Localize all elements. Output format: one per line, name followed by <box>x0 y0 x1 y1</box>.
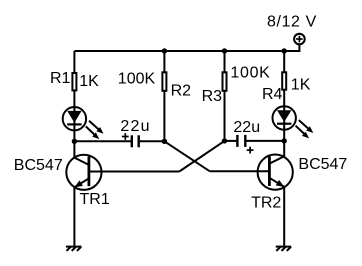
svg-text:R3: R3 <box>202 88 223 105</box>
junction TR2 collector node <box>282 138 287 143</box>
wire supply riser <box>284 45 299 51</box>
wire TR2 base <box>210 170 270 172</box>
wire LED D1 to collector node <box>73 130 75 141</box>
resistor R4 lead <box>283 51 285 107</box>
resistor R2 lead <box>163 51 165 141</box>
capacitor C1 22u <box>122 133 139 147</box>
ground right <box>276 247 291 251</box>
svg-text:BC547: BC547 <box>14 157 63 174</box>
svg-text:1K: 1K <box>79 73 99 90</box>
resistor R2 <box>162 72 166 91</box>
junction rail/R4 <box>282 48 287 53</box>
LED D1 <box>63 107 86 130</box>
svg-text:100K: 100K <box>230 64 270 81</box>
junction TR1 collector node <box>72 139 77 144</box>
svg-text:R4: R4 <box>262 86 283 103</box>
svg-text:22u: 22u <box>120 118 150 135</box>
wire capacitor C2 to TR2 collector node <box>246 140 284 142</box>
svg-text:R2: R2 <box>171 82 192 99</box>
wire top supply rail <box>74 50 299 52</box>
wire node R3 to capacitor C2 <box>225 140 239 142</box>
resistor R4 <box>282 72 286 89</box>
ground left <box>66 247 81 251</box>
resistor R1 <box>72 73 76 90</box>
svg-text:BC547: BC547 <box>298 156 347 173</box>
wire LED D2 to collector node <box>283 130 285 141</box>
junction R3/C2 node <box>222 138 227 143</box>
wire cross B (R3 node to TR1 base) <box>179 141 224 172</box>
wire cross A (R2 node to TR2 base) <box>164 141 209 171</box>
junction R2/C1 node <box>162 139 167 144</box>
svg-text:100K: 100K <box>118 70 156 87</box>
LED D1 light arrows <box>86 121 104 139</box>
LED D2 <box>273 106 296 129</box>
transistor TR1 <box>66 141 101 190</box>
svg-text:1K: 1K <box>291 76 311 93</box>
svg-text:TR1: TR1 <box>80 191 110 208</box>
svg-text:TR2: TR2 <box>251 194 281 211</box>
wire capacitor C1 to node R2 <box>140 140 165 142</box>
capacitor C2 22u <box>237 135 253 154</box>
power terminal + <box>294 34 305 45</box>
resistor R1 lead <box>73 51 75 107</box>
svg-text:22u: 22u <box>233 119 260 136</box>
wire TR1 base <box>89 171 179 173</box>
junction rail/R2 <box>162 48 167 53</box>
LED D2 light arrows <box>296 120 314 138</box>
wire collector TR1 to capacitor C1 <box>74 140 131 142</box>
resistor R3 <box>223 72 227 91</box>
transistor TR2 <box>258 141 293 190</box>
svg-text:8/12 V: 8/12 V <box>267 13 317 30</box>
resistor R3 lead <box>224 51 226 141</box>
svg-text:R1: R1 <box>50 70 71 87</box>
junction rail/R3 <box>222 48 227 53</box>
wire TR2 emitter to ground <box>283 187 285 246</box>
wire TR1 emitter to ground <box>73 187 75 246</box>
